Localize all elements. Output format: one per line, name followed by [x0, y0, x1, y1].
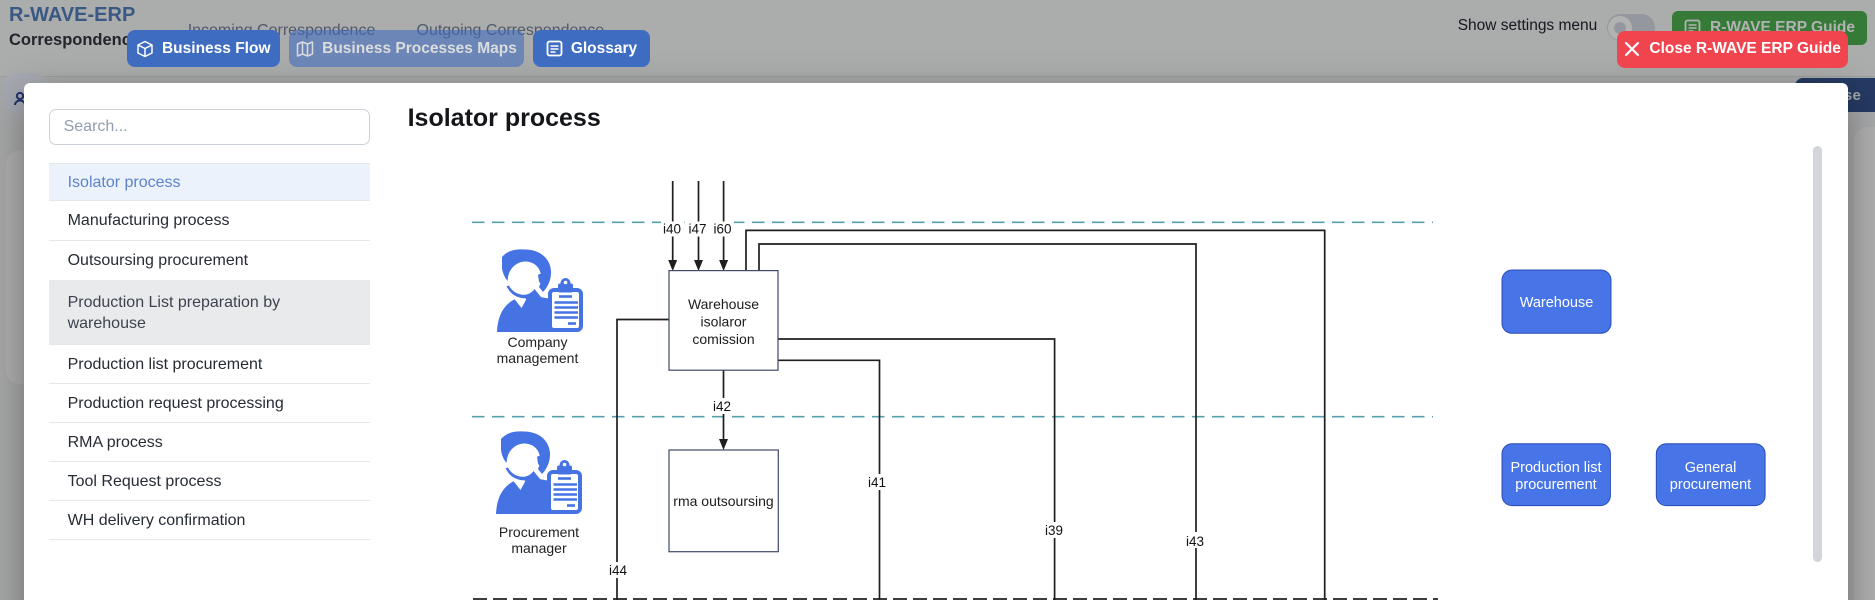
svg-text:Company: Company	[508, 334, 568, 350]
wire i40	[661, 181, 684, 271]
wire i60	[711, 181, 734, 271]
bottom lane boundary (dashed)	[473, 598, 1438, 600]
svg-text:i44: i44	[609, 563, 628, 578]
process box: rma outsoursing	[669, 450, 778, 552]
node: Warehouse	[1502, 270, 1611, 333]
wire outer loop	[746, 230, 1325, 600]
node: Production list procurement	[1502, 444, 1610, 506]
svg-text:Procurement: Procurement	[499, 524, 579, 540]
wire i47	[686, 181, 709, 271]
svg-text:i47: i47	[688, 222, 706, 237]
svg-text:i39: i39	[1045, 523, 1063, 538]
svg-text:i43: i43	[1186, 534, 1204, 549]
node: General procurement	[1656, 444, 1765, 506]
svg-text:i41: i41	[868, 475, 886, 490]
svg-text:Production list: Production list	[1510, 460, 1601, 476]
wire i43	[759, 244, 1207, 600]
svg-text:procurement: procurement	[1515, 477, 1596, 493]
svg-text:Warehouse: Warehouse	[1520, 295, 1594, 311]
svg-text:comission: comission	[692, 331, 754, 347]
svg-text:manager: manager	[511, 540, 567, 556]
wire i39	[778, 339, 1066, 600]
actor: Company management	[497, 249, 581, 366]
actor: Procurement manager	[496, 431, 580, 556]
wire i44	[606, 320, 669, 600]
svg-text:isolaror: isolaror	[701, 314, 747, 330]
svg-text:i60: i60	[713, 222, 731, 237]
svg-text:rma outsoursing: rma outsoursing	[673, 493, 773, 509]
svg-text:management: management	[497, 350, 579, 366]
svg-text:i42: i42	[713, 399, 731, 414]
svg-text:General: General	[1685, 460, 1737, 476]
svg-text:procurement: procurement	[1670, 477, 1751, 493]
svg-text:i40: i40	[663, 222, 681, 237]
wire i41	[778, 360, 889, 600]
svg-text:Warehouse: Warehouse	[688, 296, 759, 312]
wire i42	[710, 370, 734, 450]
lane divider 2	[472, 416, 1433, 418]
process box: Warehouse isolaror comission	[669, 271, 778, 371]
lane divider 1	[472, 221, 1433, 223]
